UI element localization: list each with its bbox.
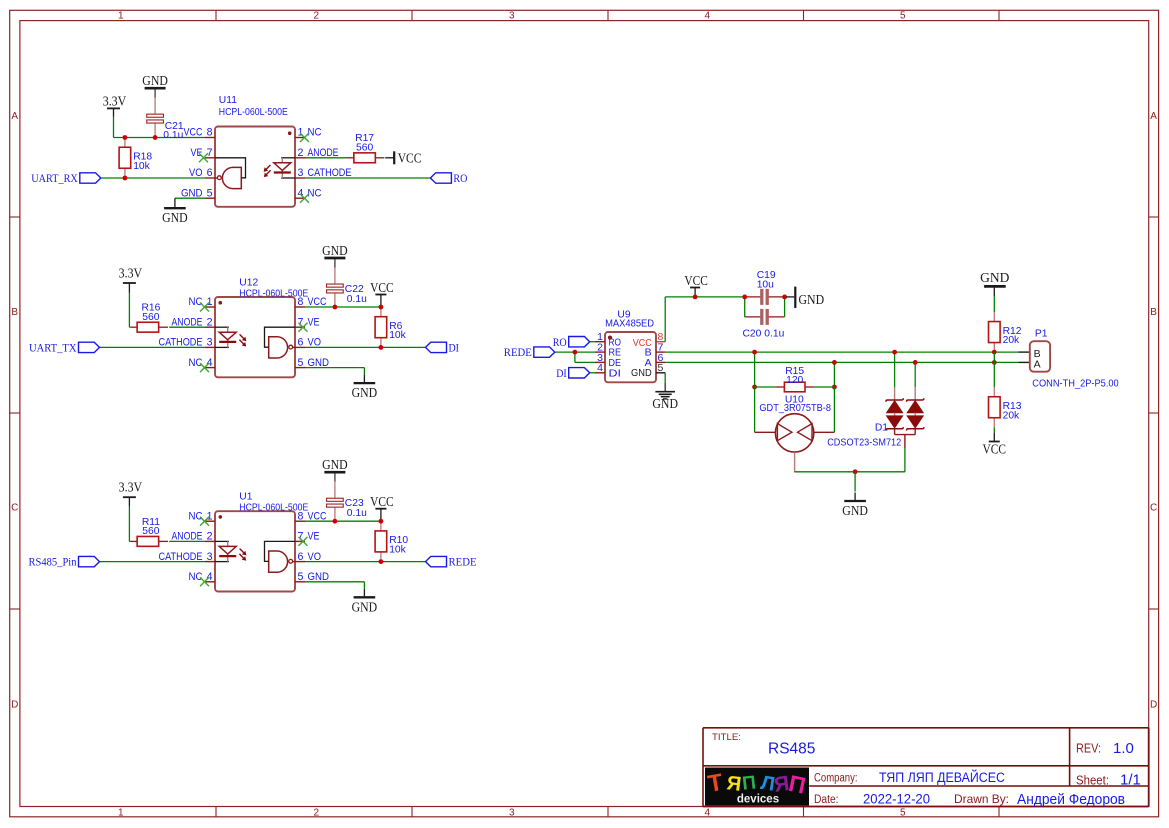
svg-text:1/1: 1/1 xyxy=(1120,772,1141,789)
svg-text:VE: VE xyxy=(191,147,203,159)
svg-text:GND: GND xyxy=(162,210,188,225)
svg-text:DI: DI xyxy=(556,368,567,380)
svg-text:4: 4 xyxy=(207,357,213,369)
svg-text:VO: VO xyxy=(308,337,322,349)
svg-text:3.3V: 3.3V xyxy=(119,265,143,280)
svg-text:NC: NC xyxy=(308,187,322,199)
svg-text:RS485: RS485 xyxy=(768,741,815,758)
svg-text:2: 2 xyxy=(207,531,213,543)
svg-text:VCC: VCC xyxy=(370,280,394,295)
svg-text:4: 4 xyxy=(705,11,711,22)
svg-text:GND: GND xyxy=(308,357,330,369)
svg-text:Drawn By:: Drawn By: xyxy=(954,792,1009,806)
svg-text:3.3V: 3.3V xyxy=(119,480,143,495)
svg-text:3: 3 xyxy=(509,11,515,22)
svg-text:U11: U11 xyxy=(219,95,237,106)
svg-text:GND: GND xyxy=(142,73,168,88)
svg-text:Я: Я xyxy=(725,772,742,796)
svg-text:GND: GND xyxy=(652,396,678,411)
svg-text:Андрей Федоров: Андрей Федоров xyxy=(1017,792,1125,808)
svg-text:2: 2 xyxy=(314,808,320,819)
svg-text:6: 6 xyxy=(298,337,304,349)
svg-text:6: 6 xyxy=(207,167,213,179)
svg-text:VCC: VCC xyxy=(983,442,1007,457)
svg-text:VCC: VCC xyxy=(308,510,327,522)
svg-text:C: C xyxy=(11,503,18,514)
svg-text:CDSOT23-SM712: CDSOT23-SM712 xyxy=(827,437,901,448)
svg-text:CATHODE: CATHODE xyxy=(159,337,203,349)
svg-text:1.0: 1.0 xyxy=(1113,740,1134,757)
svg-text:10k: 10k xyxy=(389,330,406,341)
svg-text:GND: GND xyxy=(322,243,348,258)
svg-text:5: 5 xyxy=(298,571,304,583)
svg-text:UART_TX: UART_TX xyxy=(29,343,77,355)
svg-text:5: 5 xyxy=(207,187,213,199)
svg-text:560: 560 xyxy=(142,526,159,537)
svg-text:HCPL-060L-500E: HCPL-060L-500E xyxy=(239,503,308,514)
svg-text:1: 1 xyxy=(207,296,213,308)
svg-text:RS485_Pin: RS485_Pin xyxy=(29,557,77,569)
svg-text:1: 1 xyxy=(207,510,213,522)
svg-text:GND: GND xyxy=(980,270,1009,285)
svg-text:0.1u: 0.1u xyxy=(347,508,367,519)
svg-text:GND: GND xyxy=(799,292,825,307)
svg-text:REDE: REDE xyxy=(504,347,532,359)
svg-text:5: 5 xyxy=(658,362,664,374)
svg-text:HCPL-060L-500E: HCPL-060L-500E xyxy=(239,288,308,299)
svg-text:5: 5 xyxy=(298,357,304,369)
svg-text:VO: VO xyxy=(308,551,322,563)
svg-text:B: B xyxy=(1150,307,1157,318)
svg-text:ANODE: ANODE xyxy=(308,147,339,159)
svg-text:3.3V: 3.3V xyxy=(103,93,127,108)
svg-text:4: 4 xyxy=(705,808,711,819)
svg-text:U1: U1 xyxy=(239,492,252,503)
svg-text:ANODE: ANODE xyxy=(172,531,203,543)
svg-text:10u: 10u xyxy=(757,280,774,291)
svg-text:Date:: Date: xyxy=(814,794,839,806)
svg-text:VCC: VCC xyxy=(370,494,394,509)
svg-text:A: A xyxy=(1150,111,1157,122)
svg-text:560: 560 xyxy=(142,312,159,323)
svg-text:10k: 10k xyxy=(133,161,150,172)
svg-text:CATHODE: CATHODE xyxy=(159,551,203,563)
svg-text:3: 3 xyxy=(207,337,213,349)
svg-text:DI: DI xyxy=(609,367,622,379)
svg-text:120: 120 xyxy=(786,375,803,386)
svg-text:C: C xyxy=(1150,503,1157,514)
svg-text:D: D xyxy=(11,700,18,711)
svg-text:C20 0.1u: C20 0.1u xyxy=(743,329,785,340)
svg-text:GND: GND xyxy=(352,599,378,614)
svg-text:CATHODE: CATHODE xyxy=(308,167,352,179)
svg-text:2: 2 xyxy=(298,147,304,159)
svg-text:U12: U12 xyxy=(239,277,258,288)
svg-text:VCC: VCC xyxy=(684,273,708,288)
svg-text:10k: 10k xyxy=(389,544,406,555)
svg-text:MAX485ED: MAX485ED xyxy=(605,318,654,329)
svg-text:P1: P1 xyxy=(1035,329,1048,340)
svg-text:TITLE:: TITLE: xyxy=(712,732,741,743)
svg-text:VO: VO xyxy=(189,167,203,179)
svg-text:GND: GND xyxy=(181,187,203,199)
svg-text:2: 2 xyxy=(314,11,320,22)
svg-text:devices: devices xyxy=(737,794,779,806)
svg-text:B: B xyxy=(11,307,18,318)
svg-text:5: 5 xyxy=(900,808,906,819)
svg-text:3: 3 xyxy=(207,551,213,563)
svg-text:П: П xyxy=(741,772,757,794)
svg-text:RO: RO xyxy=(553,337,567,349)
svg-text:VCC: VCC xyxy=(184,127,203,139)
svg-text:1: 1 xyxy=(118,808,124,819)
svg-text:REDE: REDE xyxy=(449,557,477,569)
svg-text:Sheet:: Sheet: xyxy=(1076,773,1109,787)
svg-text:A: A xyxy=(1034,358,1041,370)
svg-text:D: D xyxy=(1150,700,1157,711)
svg-text:VCC: VCC xyxy=(308,296,327,308)
svg-text:4: 4 xyxy=(597,362,603,374)
svg-text:0.1u: 0.1u xyxy=(163,130,183,141)
svg-text:6: 6 xyxy=(298,551,304,563)
svg-text:0.1u: 0.1u xyxy=(347,294,367,305)
svg-text:VE: VE xyxy=(308,531,320,543)
svg-text:HCPL-060L-500E: HCPL-060L-500E xyxy=(219,107,288,118)
svg-text:ANODE: ANODE xyxy=(172,316,203,328)
svg-text:D1: D1 xyxy=(875,422,888,433)
svg-text:8: 8 xyxy=(207,127,213,139)
svg-text:2: 2 xyxy=(207,316,213,328)
svg-text:GND: GND xyxy=(842,503,868,518)
svg-text:2022-12-20: 2022-12-20 xyxy=(863,791,930,806)
svg-text:VE: VE xyxy=(308,316,320,328)
svg-text:4: 4 xyxy=(207,571,213,583)
svg-text:20k: 20k xyxy=(1003,410,1020,421)
svg-text:RO: RO xyxy=(453,173,467,185)
svg-text:1: 1 xyxy=(118,11,124,22)
svg-text:ТЯП ЛЯП ДЕВАЙСЕС: ТЯП ЛЯП ДЕВАЙСЕС xyxy=(879,770,1005,785)
svg-text:GND: GND xyxy=(308,571,330,583)
svg-text:GND: GND xyxy=(352,385,378,400)
svg-text:CONN-TH_2P-P5.00: CONN-TH_2P-P5.00 xyxy=(1032,378,1119,390)
svg-text:5: 5 xyxy=(900,11,906,22)
svg-text:DI: DI xyxy=(449,343,460,355)
svg-text:GND: GND xyxy=(631,367,652,379)
svg-text:REV:: REV: xyxy=(1076,741,1101,755)
svg-text:VCC: VCC xyxy=(398,150,422,165)
svg-text:NC: NC xyxy=(308,127,322,139)
svg-text:GND: GND xyxy=(322,457,348,472)
svg-text:A: A xyxy=(11,111,18,122)
svg-text:GDT_3R075TB-8: GDT_3R075TB-8 xyxy=(759,403,831,414)
svg-text:3: 3 xyxy=(509,808,515,819)
svg-text:UART_RX: UART_RX xyxy=(31,173,78,185)
svg-text:560: 560 xyxy=(356,142,373,153)
svg-text:Company:: Company: xyxy=(814,773,858,785)
svg-text:20k: 20k xyxy=(1003,335,1020,346)
svg-text:3: 3 xyxy=(298,167,304,179)
